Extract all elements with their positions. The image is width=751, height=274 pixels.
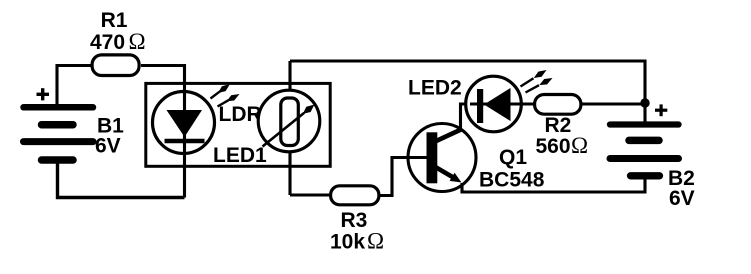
svg-text:470Ω: 470Ω xyxy=(90,29,146,54)
svg-text:6V: 6V xyxy=(95,135,121,158)
battery B1 xyxy=(24,107,94,160)
wire Q1 emitter to B2 xyxy=(462,176,645,192)
wire B1 plus to R1 xyxy=(57,66,92,108)
wire R2 to junction xyxy=(581,102,645,105)
wire LDR vertical xyxy=(288,61,291,195)
svg-text:Q1: Q1 xyxy=(499,146,527,169)
enclosure box LED1/LDR xyxy=(146,83,330,166)
wire R3 to Q1 base xyxy=(378,158,427,196)
resistor R3 xyxy=(331,186,379,205)
LDR arrow xyxy=(263,105,315,147)
LED1 emission arrow 1 xyxy=(211,84,231,99)
svg-text:R2: R2 xyxy=(545,114,572,137)
plus sign B1 xyxy=(37,88,50,100)
svg-text:R1: R1 xyxy=(101,9,128,32)
svg-text:LDR: LDR xyxy=(219,103,262,126)
resistor R1 xyxy=(92,55,139,76)
wire R1 to LED1 xyxy=(141,66,185,101)
svg-text:6V: 6V xyxy=(669,187,695,210)
svg-text:R3: R3 xyxy=(341,209,368,232)
svg-text:BC548: BC548 xyxy=(479,169,545,192)
wire LDR to R3 xyxy=(290,193,331,196)
svg-text:10kΩ: 10kΩ xyxy=(330,229,384,254)
LED2 emission arrow 2 xyxy=(526,78,553,93)
resistor R2 xyxy=(535,95,581,115)
LED LED2 xyxy=(466,76,527,132)
svg-text:LED1: LED1 xyxy=(213,144,267,167)
LED1 emission arrow 2 xyxy=(218,94,240,107)
junction node xyxy=(640,98,649,107)
transistor Q1 xyxy=(408,124,476,192)
plus sign B2 xyxy=(655,104,667,116)
svg-text:LED2: LED2 xyxy=(408,77,462,100)
wire bottom left rail xyxy=(58,160,185,198)
svg-text:560Ω: 560Ω xyxy=(536,133,589,158)
wire LED2 horizontal xyxy=(466,102,536,105)
photoresistor LDR xyxy=(258,90,320,152)
LED LED1 xyxy=(153,92,215,154)
wire LED1 vertical xyxy=(183,100,186,198)
battery B2 xyxy=(610,125,679,176)
wire Q1 collector to LED2 xyxy=(461,104,469,130)
wire top rail xyxy=(290,61,645,124)
LED2 emission arrow 1 xyxy=(521,70,547,87)
